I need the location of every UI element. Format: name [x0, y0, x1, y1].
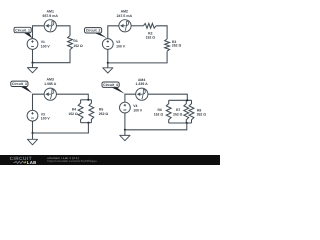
junction C4 bottom tap — [186, 122, 188, 124]
svg-text:1.085 A: 1.085 A — [44, 82, 57, 86]
svg-text:AM2: AM2 — [121, 9, 128, 13]
junction C1 ground node — [31, 62, 33, 64]
svg-text:LAB: LAB — [27, 160, 37, 165]
wire C3 riser V3-top to AM3-left — [33, 94, 45, 110]
wire C3 bottom return — [33, 123, 89, 133]
wire C4 AM4-right to parallel top — [148, 94, 187, 100]
annotation flag Circuit_1 — [14, 27, 32, 38]
svg-text:100 V: 100 V — [41, 117, 51, 121]
junction C4 top tap — [186, 99, 188, 101]
wire C3 V3 bottom lead — [32, 121, 34, 133]
wire C3 parallel top bar — [81, 99, 92, 101]
svg-text:R1: R1 — [73, 39, 77, 43]
annotation flag Circuit_2 — [85, 28, 108, 38]
junction C3 bottom tap — [87, 122, 89, 124]
wire C1 R1-bottom return — [33, 50, 71, 63]
svg-text:Circuit_1: Circuit_1 — [15, 28, 30, 32]
junction C4 ground node — [124, 129, 126, 131]
resistor R6 — [166, 100, 171, 123]
resistor R5 — [89, 100, 94, 123]
resistor R4 — [78, 100, 83, 123]
resistor R8 — [189, 100, 194, 123]
wire C4 bottom return — [125, 123, 187, 130]
voltage source V1 — [27, 39, 38, 50]
svg-text:657.9 mA: 657.9 mA — [43, 14, 59, 18]
wire C4 parallel top bar — [169, 99, 192, 101]
svg-text:252 Ω: 252 Ω — [172, 44, 182, 48]
wire C1 riser V1-top to AM1-left — [33, 26, 45, 39]
ammeter AM4 — [136, 88, 148, 100]
ground C3 — [27, 133, 37, 145]
ammeter AM2 — [119, 20, 131, 32]
wire C3 parallel bottom bar — [81, 122, 92, 124]
resistor R2 — [143, 23, 156, 28]
svg-text:252 Ω: 252 Ω — [173, 112, 183, 116]
wire C1 AM1-right to R1-top — [56, 26, 70, 36]
svg-text:247.5 mA: 247.5 mA — [117, 14, 133, 18]
wire C2 R2-right to R3-top — [156, 26, 167, 39]
wire C3 AM3-right to parallel top — [56, 94, 88, 100]
wire C4 V4 bottom lead — [124, 113, 126, 130]
CircuitLab logo zigzag — [14, 161, 26, 163]
svg-text:1.339 A: 1.339 A — [136, 82, 149, 86]
wire C4 parallel bottom bar — [169, 122, 192, 124]
svg-text:Circuit_4: Circuit_4 — [103, 83, 118, 87]
svg-text:Circuit_3: Circuit_3 — [12, 82, 27, 86]
svg-text:100 V: 100 V — [133, 108, 143, 112]
wire C2 AM2-right to R2-left — [131, 25, 143, 27]
svg-text:100 V: 100 V — [41, 44, 51, 48]
ammeter AM1 — [44, 20, 56, 32]
CircuitLab logo bolt — [24, 161, 26, 165]
annotation flag Circuit_3 — [11, 81, 32, 93]
svg-text:352 Ω: 352 Ω — [197, 113, 207, 117]
svg-text:152 Ω: 152 Ω — [154, 112, 164, 116]
svg-text:100 V: 100 V — [116, 44, 126, 48]
svg-text:AM1: AM1 — [47, 9, 54, 13]
wire C2 V2 bottom lead — [107, 49, 109, 63]
wire C1 V1 bottom lead — [32, 49, 34, 62]
ground C2 — [103, 63, 113, 73]
svg-text:152 Ω: 152 Ω — [68, 112, 78, 116]
junction C3 ground node — [31, 132, 33, 134]
CircuitLab watermark bar — [0, 155, 220, 165]
svg-text:R4: R4 — [72, 108, 76, 112]
wire C2 R3-bottom return — [108, 51, 167, 63]
svg-text:R7: R7 — [176, 108, 180, 112]
svg-text:http://circuitlab.com/c6c7lu72: http://circuitlab.com/c6c7lu72flhqqo — [47, 159, 97, 163]
annotation flag Circuit_4 — [102, 82, 125, 94]
svg-text:252 Ω: 252 Ω — [99, 112, 109, 116]
svg-text:Circuit_2: Circuit_2 — [86, 29, 101, 33]
ground C4 — [120, 130, 130, 141]
junction C3 top tap — [87, 99, 89, 101]
voltage source V2 — [102, 39, 113, 50]
svg-text:152 Ω: 152 Ω — [73, 44, 83, 48]
svg-text:152 Ω: 152 Ω — [146, 36, 156, 40]
ground C1 — [27, 63, 37, 73]
resistor R3 — [165, 39, 170, 51]
wire C2 riser V2-top to AM2-left — [108, 26, 119, 39]
voltage source V4 — [120, 102, 131, 113]
ammeter AM3 — [44, 88, 56, 100]
junction C2 ground node — [107, 62, 109, 64]
wire C4 riser V4-top to AM4-left — [125, 94, 136, 102]
resistor R1 — [68, 36, 73, 50]
voltage source V3 — [27, 110, 38, 121]
resistor R7 — [184, 100, 189, 123]
